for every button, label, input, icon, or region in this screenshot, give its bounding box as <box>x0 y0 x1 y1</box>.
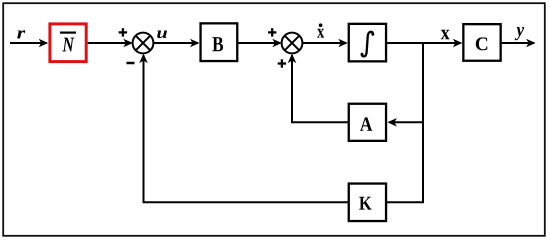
plus sign at sum2 bottom input <box>278 59 286 67</box>
wire B to sum2 <box>238 39 282 48</box>
node x label <box>441 30 450 40</box>
node r input label <box>17 30 25 38</box>
wire A output to sum2 bottom <box>288 54 348 123</box>
node u label <box>157 31 167 39</box>
block integrator <box>349 24 386 62</box>
summing junction S2 <box>282 33 303 54</box>
wire C to output y <box>502 39 536 48</box>
wire sum2 to integrator <box>302 39 348 48</box>
block C <box>463 24 500 61</box>
minus sign at sum1 bottom input <box>127 62 135 65</box>
node xdot label <box>317 23 324 37</box>
wire r to N <box>10 39 48 48</box>
block N1 (Nbar, red) <box>50 24 86 62</box>
summing junction S1 <box>133 33 154 54</box>
wire sum1 to B <box>153 39 199 48</box>
block A <box>349 104 386 141</box>
block B <box>201 23 238 61</box>
wire K output to sum1 bottom <box>139 54 348 203</box>
wire integrator to C with node junction <box>387 39 462 48</box>
node y output label <box>515 27 524 40</box>
wire K right connection <box>387 201 425 203</box>
block K <box>349 184 386 222</box>
wire N to sum1 <box>88 39 133 48</box>
plus sign at sum2 left input <box>268 28 276 36</box>
wire x node down to K level <box>422 43 424 202</box>
wire branch to A input <box>387 118 423 127</box>
plus sign at sum1 top input <box>119 28 127 36</box>
